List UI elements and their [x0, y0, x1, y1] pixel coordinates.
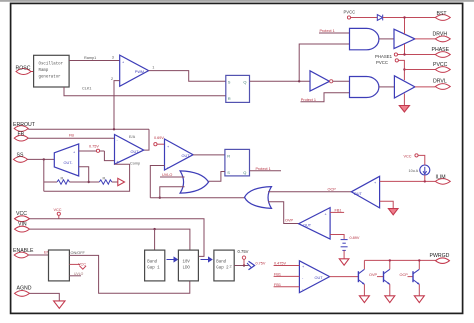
wire COMP/ERROUT rail	[28, 128, 149, 150]
node OVP stub to Q2	[369, 273, 384, 277]
output pin DRVH	[433, 31, 451, 41]
comparator 0.69V (fault)	[165, 139, 194, 170]
wire clamp top pin to 0.75V	[79, 150, 105, 152]
input pin SS	[14, 152, 28, 162]
node VCC net label	[54, 208, 62, 219]
svg-text:ON/OFF: ON/OFF	[71, 251, 86, 255]
svg-text:OCP: OCP	[328, 188, 337, 192]
wire VCC rail to LDO output	[30, 219, 205, 257]
inverter U2	[310, 71, 350, 91]
svg-text:R: R	[227, 154, 230, 159]
node FB1 stub (middle)	[274, 273, 300, 277]
input pin ENABLE	[13, 248, 34, 258]
svg-text:SS: SS	[17, 152, 24, 158]
svg-text:PVCC: PVCC	[433, 62, 448, 68]
wire comparator output to R of FF2	[193, 154, 225, 156]
top gray strip	[0, 0, 474, 2]
transistor Q2	[384, 260, 391, 295]
block Band Gap 2	[214, 250, 234, 281]
wire ON/OFF to LDO enable	[69, 251, 189, 293]
op-amp SS clamp (OUT-)	[54, 144, 78, 176]
wire AGND to ground	[30, 293, 60, 301]
svg-text:Protect 1: Protect 1	[256, 167, 271, 171]
wire battery to ground	[343, 250, 345, 258]
output pin BST	[435, 11, 450, 20]
svg-text:1: 1	[152, 66, 154, 70]
svg-text:R: R	[228, 96, 231, 101]
svg-text:generator: generator	[39, 76, 62, 80]
svg-text:FB: FB	[69, 134, 74, 138]
svg-text:PWRGD: PWRGD	[430, 253, 450, 259]
svg-text:PVCC: PVCC	[376, 60, 388, 65]
svg-text:OVP: OVP	[285, 219, 293, 223]
resistor R1	[57, 180, 70, 184]
ground (AGND)	[54, 301, 65, 308]
svg-text:AGND: AGND	[17, 286, 32, 292]
svg-text:PVCC: PVCC	[344, 9, 356, 14]
svg-text:CLK1: CLK1	[82, 87, 92, 91]
comparator OCP (current limit, mirrored)	[351, 176, 379, 208]
svg-text:OUT: OUT	[131, 150, 140, 154]
arrow LDO to Band Gap 2	[201, 256, 213, 262]
svg-text:E/A: E/A	[129, 135, 136, 139]
node FB1 stub (lower)	[274, 283, 300, 287]
node Protect 1 (latch output)	[250, 167, 282, 171]
node FB1 (OVP comparator input)	[330, 208, 344, 212]
node 0.475V stub	[274, 262, 300, 266]
node 0.75V output of Band Gap 2	[234, 249, 248, 267]
output pin PVCC	[433, 62, 450, 72]
svg-text:Band: Band	[147, 259, 157, 264]
svg-text:VCC: VCC	[16, 211, 27, 217]
svg-text:Ramp1: Ramp1	[84, 56, 96, 60]
svg-text:0.89V: 0.89V	[350, 236, 360, 240]
wire to FB1 arrow	[112, 181, 118, 183]
svg-text:VCC: VCC	[78, 263, 86, 267]
battery 0.89V reference	[341, 240, 348, 251]
output pin PWRGD	[430, 253, 450, 263]
wire comparator inverting input	[150, 166, 164, 198]
resistor R2	[99, 180, 112, 184]
ground (Q1)	[359, 296, 369, 303]
ground (low-side driver)	[399, 106, 409, 113]
svg-text:10V: 10V	[183, 260, 191, 264]
svg-text:DRVH: DRVH	[433, 31, 448, 37]
output pin DRVL	[433, 79, 450, 90]
svg-text:OUT: OUT	[182, 154, 191, 158]
ground (OCP comparator)	[388, 209, 398, 215]
svg-text:ROSC: ROSC	[16, 66, 31, 72]
svg-text:0.75V: 0.75V	[256, 262, 266, 266]
block enable/UVLO box	[49, 250, 70, 281]
wire ENABLE to box	[29, 250, 50, 255]
wire PWM inverting input to COMP rail	[114, 81, 120, 130]
ground (0.89V reference)	[339, 259, 349, 265]
svg-text:DRVL: DRVL	[433, 79, 447, 85]
svg-text:ERROUT: ERROUT	[13, 122, 36, 128]
node Protect 1 (AND gate low-side input stub)	[301, 93, 350, 102]
wire OCP comparator minus to ground	[380, 201, 394, 208]
svg-text:VCC: VCC	[54, 208, 62, 212]
block Band Gap 1	[145, 250, 165, 281]
svg-text:0.475V: 0.475V	[274, 262, 287, 266]
svg-text:Band: Band	[216, 259, 226, 264]
svg-text:Q: Q	[243, 79, 246, 84]
node UVLO (enable box pin)	[69, 272, 83, 276]
comparator PWRGD	[299, 261, 329, 293]
AND gate G1 (high-side)	[350, 28, 395, 49]
svg-text:OUT: OUT	[315, 276, 324, 280]
svg-text:OUT-: OUT-	[64, 161, 74, 165]
svg-text:PHASE: PHASE	[432, 47, 450, 53]
node 0.75V reference	[89, 144, 115, 160]
node PHASE1	[375, 53, 435, 59]
svg-text:ILIM: ILIM	[436, 175, 446, 181]
wire PWRGD comparator output	[330, 276, 359, 278]
transistor Q1	[358, 260, 364, 295]
input pin ERROUT	[13, 122, 36, 131]
op-amp E/A (error amplifier)	[115, 135, 144, 166]
wire OVP to OR gate	[268, 202, 299, 224]
output pin PHASE	[432, 47, 451, 57]
svg-text:Protect 1: Protect 1	[301, 98, 316, 102]
svg-text:OVP: OVP	[369, 273, 377, 277]
svg-text:FB1: FB1	[274, 283, 281, 287]
svg-text:Gap 2: Gap 2	[216, 267, 229, 271]
svg-text:Gap 1: Gap 1	[147, 267, 160, 271]
svg-text:FB1: FB1	[335, 208, 342, 212]
svg-text:0.69V: 0.69V	[154, 136, 164, 140]
wire SS loop to E/A lower vertex	[44, 164, 130, 191]
svg-text:Comp: Comp	[130, 161, 140, 165]
svg-text:LDO: LDO	[183, 267, 191, 271]
svg-text:VCC: VCC	[404, 154, 412, 158]
wire CLK1	[64, 87, 226, 96]
transistor Q3	[413, 260, 420, 295]
wire Ramp1	[69, 56, 120, 61]
wire OCP rail	[268, 188, 351, 192]
svg-text:0.75V: 0.75V	[238, 249, 249, 254]
oscillator ramp generator box	[34, 55, 70, 87]
svg-text:ENABLE: ENABLE	[13, 248, 34, 254]
svg-text:OUT: OUT	[303, 224, 312, 228]
svg-text:S: S	[228, 79, 231, 84]
svg-text:FB1: FB1	[274, 273, 281, 277]
input pin ROSC	[16, 69, 34, 75]
wire clamp bottom pin to divider node	[79, 167, 90, 183]
svg-text:10u A: 10u A	[409, 169, 419, 173]
node PVCC (driver supply)	[376, 59, 435, 80]
wire Q output to inverter and gate	[250, 44, 350, 83]
ground (Q2)	[385, 296, 395, 303]
current source 10uA	[409, 165, 430, 181]
wire SS node	[28, 158, 55, 191]
wire DRVL	[415, 86, 435, 88]
ground (Q3)	[414, 296, 424, 303]
input pin FB	[14, 132, 28, 141]
svg-text:Protect 1: Protect 1	[320, 29, 335, 33]
svg-text:VIN: VIN	[18, 222, 27, 228]
flip-flop U3 (protect latch R/S/Q)	[225, 149, 250, 176]
svg-text:OCP: OCP	[400, 273, 409, 277]
flip-flop U1 (PWM latch S/R/Q)	[226, 75, 250, 102]
wire divider row	[44, 181, 100, 183]
wire VIN rail	[30, 228, 190, 250]
output pin ILIM	[435, 175, 450, 185]
node VCC (current source supply)	[404, 154, 425, 165]
OR gate G4 (mirrored, fault combine)	[245, 187, 272, 209]
OR gate G3	[180, 171, 209, 193]
wire PWRGD rail	[364, 259, 435, 261]
arrow connector FB1 (divider tap)	[118, 178, 125, 185]
input pin AGND	[15, 286, 32, 297]
input pin VCC	[15, 211, 30, 221]
buffer driver low-side	[394, 76, 415, 106]
svg-text:R: R	[61, 176, 64, 180]
svg-text:UVLO: UVLO	[162, 173, 172, 177]
svg-text:OUT: OUT	[354, 192, 363, 196]
wire FB rail	[28, 134, 114, 139]
arrow 0.75V net	[247, 261, 266, 270]
arrow Band Gap 1 to LDO	[167, 256, 179, 262]
wire ILIM rail	[380, 180, 435, 182]
comparator PWM	[111, 55, 154, 86]
AND gate G2 (low-side)	[350, 77, 395, 98]
wire DRVH	[415, 38, 435, 40]
diode D1 (bootstrap)	[377, 15, 435, 21]
wire PWM output to S input	[149, 71, 226, 82]
node VCC (enable box pin)	[69, 263, 86, 270]
svg-text:3: 3	[112, 56, 114, 60]
svg-text:2: 2	[230, 264, 232, 268]
node PVCC (bootstrap supply)	[344, 9, 378, 19]
svg-text:0.75V: 0.75V	[89, 144, 99, 148]
buffer driver high-side	[394, 18, 415, 55]
wire protect rail (OR2 output)	[150, 197, 244, 199]
svg-text:2: 2	[111, 77, 113, 81]
svg-text:S: S	[227, 170, 230, 175]
svg-text:Oscillator: Oscillator	[39, 62, 64, 67]
node 0.69V reference	[154, 136, 165, 146]
node OCP stub to Q3	[400, 273, 414, 277]
input pin VIN	[15, 222, 30, 232]
svg-text:BST: BST	[437, 11, 448, 17]
node Protect 1 (AND gate top input stub)	[319, 29, 350, 33]
wire OR gate output to S	[209, 172, 225, 182]
wire OVP minus input	[330, 235, 344, 240]
svg-text:PWM: PWM	[135, 70, 144, 74]
svg-text:FB: FB	[18, 132, 25, 138]
block 10V LDO	[178, 250, 198, 281]
svg-text:Q: Q	[243, 170, 246, 175]
svg-text:Ramp: Ramp	[39, 69, 49, 73]
wire OR gate lower input	[159, 187, 185, 199]
node UVLO stub	[160, 173, 185, 177]
svg-text:UVLO: UVLO	[74, 272, 84, 276]
svg-text:R: R	[103, 176, 106, 180]
comparator OVP (mirrored)	[299, 208, 331, 240]
svg-text:PHASE1: PHASE1	[375, 54, 393, 59]
